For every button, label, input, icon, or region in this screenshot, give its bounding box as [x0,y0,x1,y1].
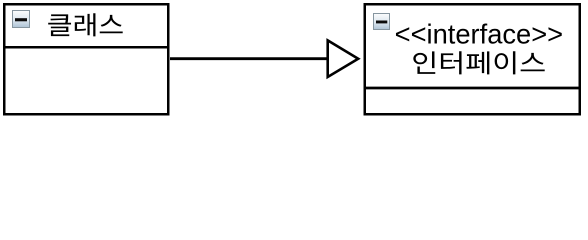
svg-text:<<interface>>: <<interface>> [395,19,563,50]
